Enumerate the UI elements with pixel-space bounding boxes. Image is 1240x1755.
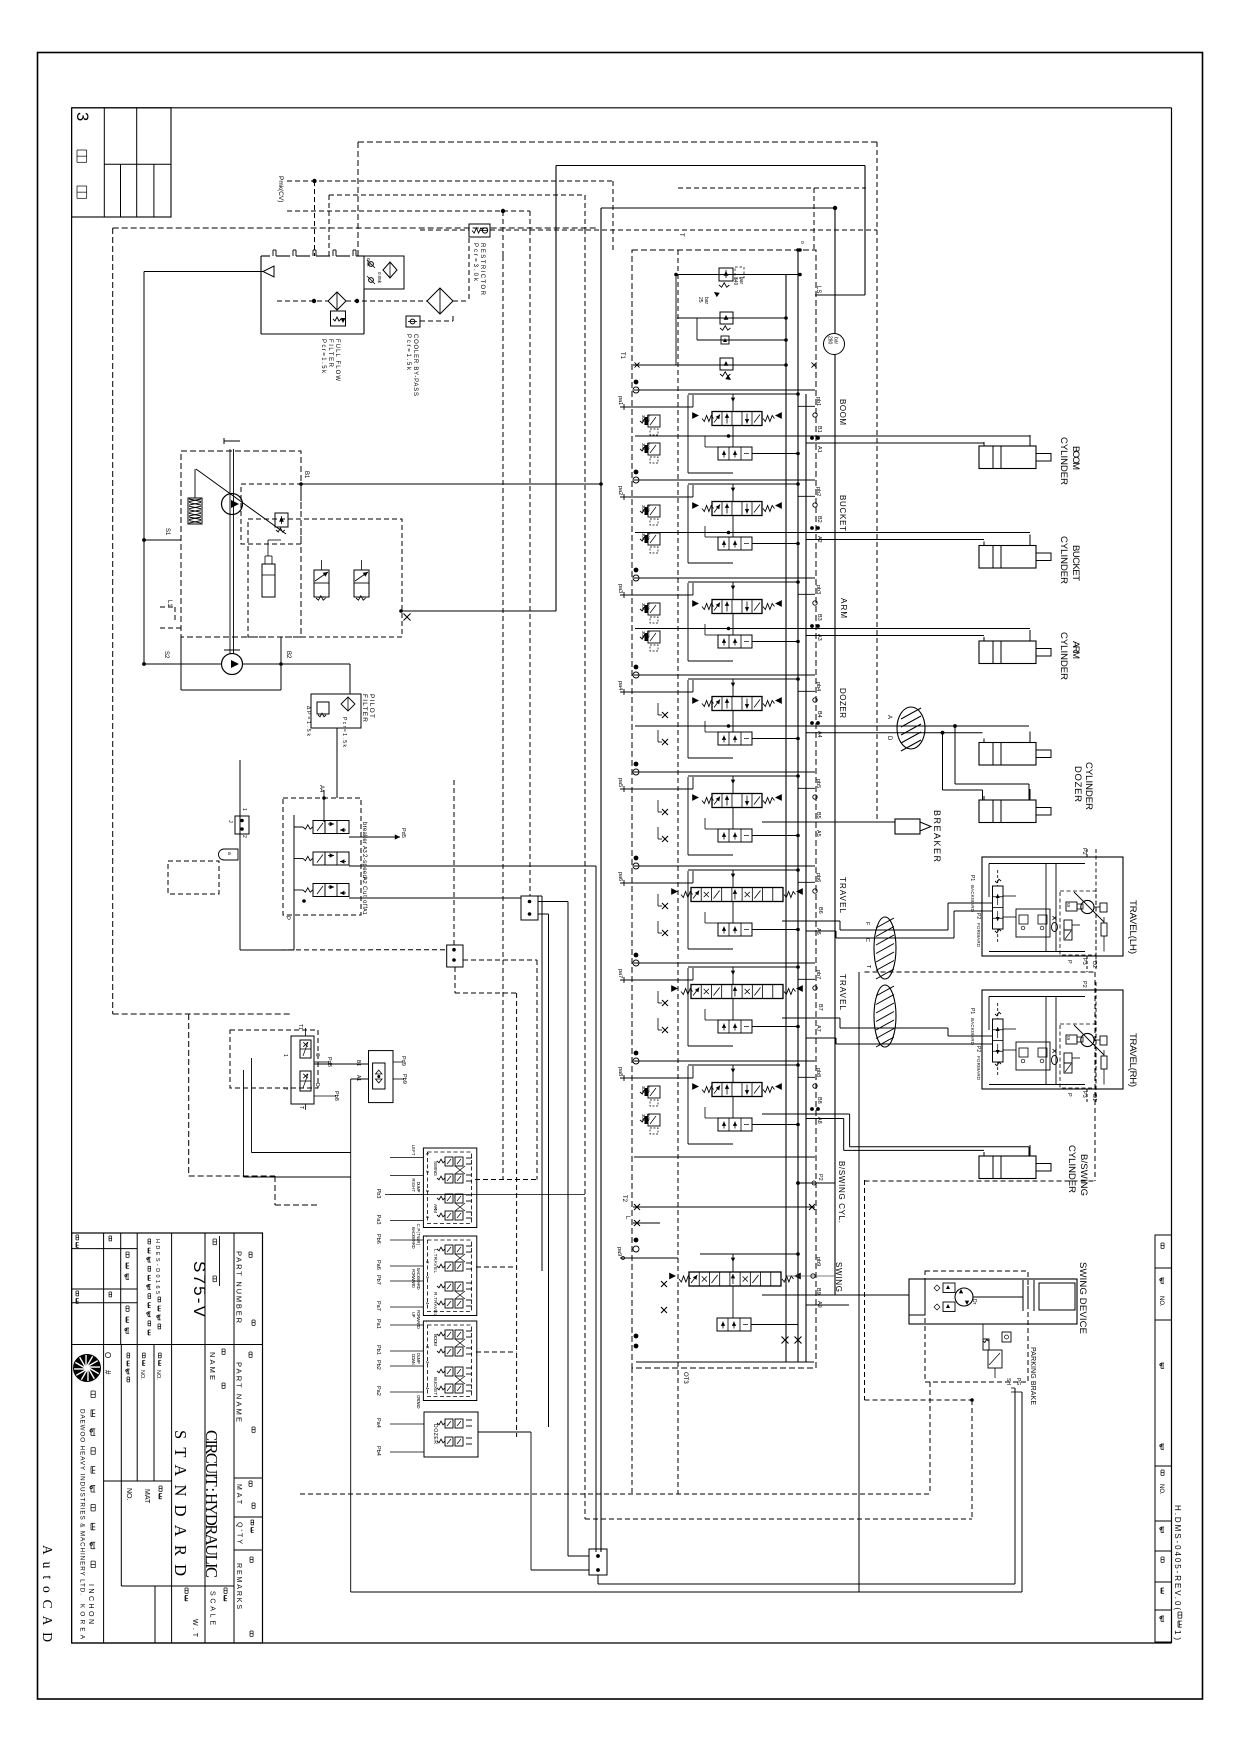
svg-text:DOZER: DOZER xyxy=(432,1424,438,1444)
solenoid valve cut-off SV3 xyxy=(294,884,349,897)
section SWING main spool xyxy=(669,1272,801,1286)
svg-text:PARKING BRAKE: PARKING BRAKE xyxy=(1029,1347,1036,1405)
wire B3 arm xyxy=(635,628,1030,630)
section ARM compensator valve xyxy=(705,614,800,649)
shuttle valve block xyxy=(355,1051,393,1103)
svg-text:A1: A1 xyxy=(355,1075,361,1081)
travel motor LH block xyxy=(982,857,1123,956)
travel port dashed risers xyxy=(1087,849,1096,1102)
svg-text:BACKWARD: BACKWARD xyxy=(416,1268,421,1290)
svg-text:pa4: pa4 xyxy=(617,681,623,690)
wire pedal to shuttle xyxy=(314,1064,369,1592)
T1 return line xyxy=(619,352,817,380)
svg-text:LEFT: LEFT xyxy=(411,1145,416,1156)
section BUCKET pilot reducer bottom xyxy=(640,533,660,553)
svg-text:1: 1 xyxy=(282,1054,288,1057)
svg-text:A5: A5 xyxy=(815,830,821,837)
svg-text:BREAKER: BREAKER xyxy=(932,810,942,863)
wire solenoid P dashed xyxy=(240,949,446,951)
revision strip xyxy=(1155,1235,1172,1642)
svg-text:bar: bar xyxy=(646,631,651,638)
svg-text:B/SWING CYL.: B/SWING CYL. xyxy=(837,1161,846,1223)
valve section BOOM S1 xyxy=(633,380,639,393)
section BOOM pilot reducer bottom xyxy=(640,443,660,463)
solenoid block port A4 xyxy=(318,785,326,822)
svg-text:pa1: pa1 xyxy=(617,396,623,405)
section spare compensator valve xyxy=(705,808,800,843)
wire B2 bucket xyxy=(635,532,1030,534)
joystick swing-arm port wires xyxy=(375,1153,430,1225)
swing gearbox xyxy=(973,1280,1075,1311)
section BOOM main spool xyxy=(692,412,782,426)
wire dashed bottom bus 1 xyxy=(300,1493,930,1495)
svg-text:pa6: pa6 xyxy=(617,872,623,881)
svg-text:CYLINDER: CYLINDER xyxy=(1058,437,1069,485)
relief 25bar xyxy=(677,297,788,330)
joystick boom-bucket direction labels xyxy=(411,1312,438,1409)
svg-text:bar: bar xyxy=(646,1086,651,1093)
center joint labels xyxy=(864,922,871,969)
swing relief valve 1 xyxy=(934,1283,955,1293)
section DOZER pilot port pa4 xyxy=(617,680,693,695)
svg-text:ARM: ARM xyxy=(1070,641,1081,659)
svg-text:BUCKET: BUCKET xyxy=(433,1377,438,1395)
label bucket xyxy=(1058,536,1081,584)
swing motor xyxy=(955,1288,977,1306)
svg-text:300: 300 xyxy=(641,443,646,451)
suction manifold wire xyxy=(142,272,263,666)
solenoid valve 2-speed SV2 xyxy=(294,852,349,865)
svg-text:BOOM: BOOM xyxy=(433,1334,438,1346)
wire return drop right xyxy=(858,972,860,1592)
svg-text:R.TRAVEL: R.TRAVEL xyxy=(433,1292,438,1316)
svg-text:ARM: ARM xyxy=(433,1204,438,1213)
wire dozer cylinder2 feed 1 xyxy=(943,733,983,800)
cylinder dozer 1 xyxy=(979,732,1051,766)
section B/SWING CYL. bridge passage xyxy=(688,1063,800,1144)
svg-text:D: D xyxy=(886,736,892,741)
RH port labels xyxy=(1066,981,1097,1101)
svg-text:C: C xyxy=(864,938,870,942)
svg-text:Pb2: Pb2 xyxy=(375,1360,381,1370)
svg-text:bar: bar xyxy=(646,1114,651,1121)
title block QTY header xyxy=(236,1520,254,1544)
section BUCKET pilot port pa2 xyxy=(617,485,693,500)
svg-text:pb8: pb8 xyxy=(815,1068,821,1077)
svg-text:Pa3: Pa3 xyxy=(375,1215,381,1225)
wire dashed 454 drop xyxy=(453,780,455,945)
wire filter to cooler xyxy=(277,299,427,303)
svg-text:P: P xyxy=(1066,1093,1072,1097)
svg-text:T1: T1 xyxy=(619,352,625,360)
pilot filter block xyxy=(311,664,361,798)
T2 return wire xyxy=(621,1195,815,1210)
return manifold box xyxy=(261,250,364,334)
svg-text:bar: bar xyxy=(646,505,651,512)
company name korean xyxy=(90,1391,92,1398)
svg-text:P1: P1 xyxy=(969,875,975,881)
section TRAVEL pilot port pa6 xyxy=(617,871,693,886)
wire dashed pilot supply bus xyxy=(287,209,530,256)
section B/SWING CYL. port pb8 xyxy=(798,1068,821,1088)
label boom xyxy=(1058,437,1081,485)
wire A3 arm xyxy=(806,635,984,637)
section B/SWING CYL. port B8 xyxy=(810,1097,822,1111)
svg-text:SWING: SWING xyxy=(433,1161,438,1176)
check valve top xyxy=(697,318,788,344)
pilot control dashed box xyxy=(248,519,402,637)
RH motor xyxy=(1074,1025,1104,1055)
travel RH dashed enclosure xyxy=(865,972,1096,1181)
remote control valve joystick boom-bucket xyxy=(423,1321,476,1401)
svg-text:1: 1 xyxy=(241,808,247,811)
wire A2 bucket xyxy=(806,539,984,541)
wire Pb3 line xyxy=(385,1194,585,1196)
svg-text:pa5: pa5 xyxy=(617,778,623,787)
svg-text:A4: A4 xyxy=(318,785,324,793)
svg-text:pb3: pb3 xyxy=(815,585,821,594)
title block scale cell xyxy=(209,1588,228,1625)
title block name header xyxy=(208,1349,225,1388)
svg-text:A4: A4 xyxy=(816,731,822,738)
pump control solenoid valve 2 xyxy=(354,560,369,600)
svg-text:INCHON: INCHON xyxy=(87,1584,94,1624)
svg-text:300: 300 xyxy=(641,415,646,423)
section B/SWING CYL. main spool xyxy=(692,1083,782,1097)
RH brake release valve xyxy=(1064,1053,1080,1073)
wire cut-off line xyxy=(349,897,521,899)
svg-text:B1: B1 xyxy=(355,1060,361,1066)
valve section spare S5 xyxy=(633,762,639,775)
svg-text:L.TRAVEL: L.TRAVEL xyxy=(433,1249,438,1273)
main valve top port o xyxy=(798,241,805,252)
wire pedal T lines xyxy=(244,1058,351,1177)
wire dashed drain bus xyxy=(329,195,585,256)
travel pedal valve dashed box xyxy=(230,1030,318,1088)
section BUCKET port pb2 xyxy=(798,487,821,507)
wire Pmk pilot dashed bus xyxy=(277,176,613,256)
valve area dashed boundary top xyxy=(678,188,866,250)
svg-text:25: 25 xyxy=(697,297,703,303)
wire pilot supply dashed to joysticks xyxy=(455,256,537,1437)
wire A9 swing xyxy=(806,1304,849,1306)
section ARM bridge passage xyxy=(688,580,800,661)
svg-text:2: 2 xyxy=(282,1087,288,1090)
svg-text:bar: bar xyxy=(833,337,839,345)
pump drain housing xyxy=(181,637,281,690)
section B/SWING CYL. pilot port pa8 xyxy=(617,1066,693,1081)
junction box pilot supply xyxy=(447,945,463,967)
wire B1 boom xyxy=(635,434,1030,438)
RH speed solenoid xyxy=(1066,1035,1083,1044)
svg-text:D1: D1 xyxy=(1091,1094,1097,1101)
regulator piston valve xyxy=(275,513,288,532)
section BUCKET main spool xyxy=(692,502,782,516)
wire B7 travel-R xyxy=(782,1004,982,1036)
wire P1 supply riser xyxy=(301,208,835,1552)
swing relief valve 2 xyxy=(934,1302,955,1312)
svg-text:P2: P2 xyxy=(975,913,981,919)
pump servo spring cylinder xyxy=(188,469,202,524)
section TRAVEL bridge passage xyxy=(688,965,800,1046)
grip symbol xyxy=(219,849,239,860)
junction box J xyxy=(227,808,249,838)
svg-text:pa3: pa3 xyxy=(617,584,623,593)
wire A7 travel-R xyxy=(806,1025,982,1044)
restrictor valve xyxy=(469,224,490,237)
wire dashed swing drain xyxy=(865,1180,974,1519)
svg-text:DOZER: DOZER xyxy=(838,688,847,718)
valve section DOZER S4 xyxy=(633,665,639,678)
RH motor dashed box xyxy=(1060,1024,1096,1088)
section DOZER main spool xyxy=(692,697,782,711)
valve section BUCKET S2 xyxy=(633,470,639,483)
svg-text:300: 300 xyxy=(641,603,646,611)
svg-text:#: # xyxy=(103,1370,112,1375)
wire A8 b-swing xyxy=(806,1119,984,1151)
svg-text:pb4: pb4 xyxy=(815,682,821,691)
section ARM pilot port pa3 xyxy=(617,583,693,598)
wire A4 dozer xyxy=(806,731,983,735)
pump swash plate arm xyxy=(196,469,286,534)
svg-text:B2: B2 xyxy=(285,651,291,659)
svg-text:Pb8: Pb8 xyxy=(333,1091,339,1101)
LH direction labels xyxy=(969,875,981,948)
remote control valve joystick swing-arm xyxy=(423,1148,476,1228)
supply rail 1 xyxy=(785,275,787,1363)
wire 2-speed line xyxy=(349,866,596,1552)
svg-text:D: D xyxy=(314,1083,320,1087)
pedal valve output labels xyxy=(314,1057,339,1101)
svg-text:TRAVEL: TRAVEL xyxy=(838,877,847,914)
svg-text:S2: S2 xyxy=(163,651,169,659)
cylinder dozer 2 xyxy=(979,789,1051,823)
svg-text:DUMP: DUMP xyxy=(416,1182,421,1193)
svg-text:pb9: pb9 xyxy=(815,1257,821,1266)
wire B5 breaker xyxy=(762,812,895,837)
center joint hatched bar 1 xyxy=(874,917,896,979)
svg-text:NO.: NO. xyxy=(1158,1484,1164,1495)
svg-text:UP: UP xyxy=(411,1312,416,1318)
svg-text:FILTER: FILTER xyxy=(361,694,368,722)
svg-text:A9: A9 xyxy=(816,1301,822,1308)
section TRAVEL port pb7 xyxy=(798,970,821,990)
title block model cell xyxy=(190,1236,220,1318)
LH counterbalance spool xyxy=(982,870,1003,943)
label dozer cylinder xyxy=(1072,762,1094,810)
wire cut-off to bottom xyxy=(538,896,568,1556)
svg-text:P2: P2 xyxy=(1081,848,1087,855)
section BOOM pilot port pa1 xyxy=(617,395,693,410)
section TRAVEL main spool xyxy=(671,888,803,902)
wire A1 boom xyxy=(806,442,984,444)
title block MAT header xyxy=(235,1481,255,1508)
travel motor RH block xyxy=(982,990,1123,1089)
wire X load sense xyxy=(399,609,556,620)
bypass check block xyxy=(364,256,404,289)
svg-text:P: P xyxy=(1066,960,1072,964)
parking brake port wires xyxy=(1005,1378,1022,1592)
svg-text:BOOM: BOOM xyxy=(838,399,847,425)
svg-text:O: O xyxy=(103,1352,112,1358)
pilot accumulator dashed box xyxy=(168,861,219,894)
svg-text:T: T xyxy=(298,1106,304,1109)
section ARM port pb3 xyxy=(798,585,821,605)
svg-text:A6: A6 xyxy=(815,928,821,935)
junction block bottom xyxy=(589,1549,607,1575)
svg-text:A2: A2 xyxy=(361,877,367,884)
svg-text:H.DMS-0405-REV.0(: H.DMS-0405-REV.0( xyxy=(1173,1505,1182,1610)
svg-text:B9: B9 xyxy=(815,1288,821,1295)
svg-text:RIGHT: RIGHT xyxy=(411,1178,416,1192)
svg-text:P: P xyxy=(284,916,290,920)
svg-text:300: 300 xyxy=(641,1114,646,1122)
svg-text:REMARKS: REMARKS xyxy=(235,1563,242,1609)
svg-text:300: 300 xyxy=(641,505,646,513)
full flow filter xyxy=(328,292,346,326)
svg-text:NO.: NO. xyxy=(155,1370,161,1380)
svg-text:Pd9: Pd9 xyxy=(400,1056,406,1066)
section B/SWING CYL. compensator valve xyxy=(705,1097,800,1132)
third-angle projection table xyxy=(72,108,171,217)
section spare blocked pilot ports xyxy=(658,800,668,842)
section ARM port B3 xyxy=(810,614,822,628)
svg-text:P3: P3 xyxy=(1081,1091,1087,1098)
section TRAVEL port pb6 xyxy=(798,873,821,893)
wire pilot drain dashed bus xyxy=(584,229,586,1519)
pump control solenoid valve 1 xyxy=(314,560,329,600)
svg-text:A1: A1 xyxy=(361,908,367,915)
LH speed solenoid xyxy=(1066,902,1083,911)
section ARM pilot reducer top xyxy=(640,603,660,623)
wire B9 swing xyxy=(762,1294,909,1296)
section TRAVEL pilot port pa7 xyxy=(617,968,693,983)
port S2 xyxy=(144,651,221,664)
svg-text:DAEWOO HEAVY INDUSTRIES & MACH: DAEWOO HEAVY INDUSTRIES & MACHINERY LTD. xyxy=(79,1409,86,1595)
svg-text:bar: bar xyxy=(646,533,651,540)
valve bottom tank line xyxy=(634,1334,814,1362)
section BOOM pilot reducer top xyxy=(640,415,660,435)
svg-text:pb2: pb2 xyxy=(815,487,821,496)
parking brake valve xyxy=(983,1324,1011,1378)
title block remarks header xyxy=(235,1557,253,1636)
section ARM pilot reducer bottom xyxy=(640,631,660,651)
RH drain dashed line xyxy=(1095,982,1097,1102)
oil cooler xyxy=(427,288,453,314)
section BOOM port pb1 xyxy=(798,397,821,417)
svg-text:bar: bar xyxy=(646,603,651,610)
svg-text:Pb7: Pb7 xyxy=(375,1275,381,1285)
wire return dashed loop top xyxy=(358,142,877,256)
section BUCKET compensator valve xyxy=(705,516,800,551)
section DOZER port pb4 xyxy=(798,682,821,702)
svg-text:pb6: pb6 xyxy=(815,873,821,882)
section SWING compensator xyxy=(717,1286,798,1331)
junction block cut-off xyxy=(521,896,538,920)
joystick boom-bucket port wires xyxy=(375,1319,430,1396)
svg-text:A7: A7 xyxy=(815,1025,821,1032)
port P2 wire xyxy=(796,1174,835,1185)
RH shuttle circle xyxy=(1052,1049,1058,1065)
LH shuttle circle xyxy=(1052,916,1058,932)
valve section SWING S9 xyxy=(616,1238,678,1313)
section spare bridge passage xyxy=(688,774,800,855)
solenoid valve block dashed box xyxy=(283,798,361,915)
RH direction labels xyxy=(969,1008,981,1081)
svg-text:BACKWARD: BACKWARD xyxy=(970,885,975,913)
svg-text:T2: T2 xyxy=(621,1195,627,1203)
svg-text:Pa7: Pa7 xyxy=(375,1301,381,1311)
svg-text:B3: B3 xyxy=(816,614,822,621)
swing dashed enclosure xyxy=(925,1271,1028,1382)
solenoid block manifold wires xyxy=(240,760,306,950)
svg-text:B7: B7 xyxy=(817,1004,823,1011)
svg-text:FILTER: FILTER xyxy=(327,339,333,368)
cylinder arm xyxy=(979,630,1051,664)
svg-text:C: C xyxy=(314,1053,320,1057)
port S1 xyxy=(144,528,181,540)
svg-text:PILOT: PILOT xyxy=(368,694,375,718)
svg-text:2: 2 xyxy=(241,835,247,838)
wire cooler to restrictor xyxy=(453,230,469,301)
svg-text:0.5k: 0.5k xyxy=(366,258,371,267)
svg-text:BOOM: BOOM xyxy=(1070,446,1081,470)
wire restrictor line xyxy=(420,229,877,231)
LH port labels xyxy=(1066,848,1097,968)
svg-text:breaker: breaker xyxy=(361,822,367,844)
svg-text:bar: bar xyxy=(646,415,651,422)
port B1 label xyxy=(299,471,309,486)
svg-text:NAME: NAME xyxy=(208,1352,217,1380)
svg-text:pa8: pa8 xyxy=(617,1067,623,1076)
joystick swing-arm direction labels xyxy=(411,1145,438,1246)
svg-text:S75-V: S75-V xyxy=(190,1261,209,1318)
svg-text:NO.: NO. xyxy=(139,1370,145,1380)
svg-text:TRAVEL(LH): TRAVEL(LH) xyxy=(1127,900,1138,954)
LH motor dashed box xyxy=(1060,891,1096,955)
L drain wire xyxy=(624,1216,660,1226)
svg-text:SWING: SWING xyxy=(834,1262,843,1292)
svg-text:B5: B5 xyxy=(815,812,821,819)
title block grid xyxy=(72,1233,263,1643)
pilot filter label xyxy=(305,694,375,748)
pump enclosure dashed xyxy=(181,451,301,637)
svg-text:o: o xyxy=(799,241,805,244)
svg-text:280: 280 xyxy=(827,336,833,345)
svg-text:Pa1: Pa1 xyxy=(375,1319,381,1329)
svg-text:B1: B1 xyxy=(303,471,309,479)
section TRAVEL compensator valve xyxy=(705,999,800,1034)
section BOOM port B1 xyxy=(810,426,822,440)
svg-text:Pa6: Pa6 xyxy=(375,1260,381,1270)
section TRAVEL blocked pilot ports xyxy=(658,894,668,936)
svg-text:BUCKET: BUCKET xyxy=(838,495,847,531)
svg-text:pb1: pb1 xyxy=(815,397,821,406)
svg-text:Q'TY: Q'TY xyxy=(236,1522,243,1544)
wire B6 travel-L xyxy=(782,903,982,930)
section TRAVEL blocked pilot ports xyxy=(658,991,668,1033)
inner drawing border xyxy=(72,108,1172,1643)
wire dozer pedal to bottom xyxy=(478,1432,531,1570)
valve section B/SWING CYL. S8 xyxy=(633,1051,639,1064)
svg-text:CYLINDER: CYLINDER xyxy=(1058,632,1069,680)
main valve left edge drain dashed xyxy=(631,1368,633,1494)
RH brake shuttle block xyxy=(1003,1029,1050,1070)
center joint hatched bar 2 xyxy=(874,985,896,1047)
svg-text:Pb9: Pb9 xyxy=(401,1074,407,1084)
main relief pressure gauge 280bar xyxy=(824,334,845,355)
svg-text:CYLINDER: CYLINDER xyxy=(1066,1145,1077,1193)
